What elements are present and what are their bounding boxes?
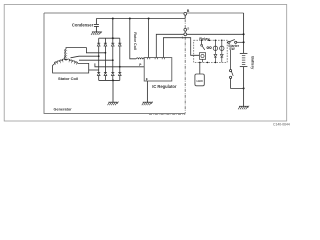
wire B top <box>44 12 244 14</box>
stator coil windings <box>54 49 77 65</box>
wire phase C <box>79 59 113 61</box>
wire reg terminal B riser <box>148 19 150 58</box>
wire reg terminal L to relay <box>163 38 199 58</box>
svg-text:Generator: Generator <box>54 107 73 111</box>
condenser C1 <box>94 19 99 32</box>
ground regulator <box>142 102 153 106</box>
node phase A <box>105 52 107 54</box>
wire phase A <box>66 48 105 53</box>
rectifier top bus <box>99 37 120 39</box>
diode D4 <box>118 43 121 46</box>
svg-text:Condenser: Condenser <box>72 22 94 27</box>
svg-text:S: S <box>187 26 189 30</box>
ground rectifier <box>108 102 119 106</box>
wire LED <box>199 62 201 74</box>
ground battery <box>238 106 249 110</box>
node bus-reg <box>148 18 150 20</box>
node S wire <box>243 33 245 35</box>
terminal staple L <box>162 58 164 60</box>
relay coil 1 <box>214 40 216 50</box>
terminal L <box>184 33 187 36</box>
wire resistor to bottom <box>202 59 204 62</box>
node diode top bus <box>112 37 114 39</box>
winding right <box>67 59 78 64</box>
IC regulator U1 box <box>144 58 172 81</box>
ground condenser <box>91 31 102 35</box>
wire column 3 <box>112 38 114 80</box>
stator centre node <box>65 59 67 61</box>
wire F to ground <box>146 81 148 102</box>
relay resistor box <box>199 53 205 60</box>
wire phase B <box>71 56 99 58</box>
relay diode 2 <box>220 51 223 63</box>
relay diode 1 <box>214 51 217 63</box>
diode D2 <box>104 43 107 46</box>
winding vertical <box>64 49 66 59</box>
wire column 1 <box>98 38 100 80</box>
diode D5 <box>97 73 100 76</box>
wire reg terminal S to battery <box>156 34 243 57</box>
ignition switch SW2 <box>230 50 232 70</box>
starter switch SW1 <box>226 41 229 43</box>
rotor coil winding <box>136 58 144 59</box>
svg-text:Rotor Coil: Rotor Coil <box>133 32 137 50</box>
winding left <box>54 59 65 64</box>
node bus-diode <box>112 18 114 20</box>
dash-dot bottom stub <box>149 114 185 116</box>
svg-text:Battery: Battery <box>251 56 255 70</box>
terminal S <box>184 28 187 31</box>
terminal B <box>184 12 187 15</box>
boundary dash-dot line <box>184 14 186 114</box>
rectifier bottom bus <box>99 79 120 81</box>
wire battery to ground <box>243 67 245 107</box>
relay terminal nodes top <box>201 40 203 42</box>
diode D1 <box>97 43 100 46</box>
node starter wire <box>243 41 245 43</box>
diode D6 <box>104 73 107 76</box>
generator box <box>44 13 185 113</box>
wire column 2 <box>104 38 106 80</box>
wire column 4 <box>119 38 121 80</box>
svg-text:Stator Coil: Stator Coil <box>58 76 78 81</box>
terminal staple B <box>147 58 149 60</box>
svg-text:C140-0644: C140-0644 <box>273 123 290 127</box>
wire riser bus to diode bus <box>112 19 114 39</box>
node switch-battery <box>243 87 245 89</box>
diode D7 <box>111 73 114 76</box>
svg-text:L: L <box>182 36 184 40</box>
wire main bus <box>96 15 185 18</box>
node phase C <box>112 59 114 61</box>
wire to ground 1 <box>112 80 114 102</box>
battery BT1 <box>240 53 248 66</box>
relay coil 2 <box>221 40 223 50</box>
wire switch to battery column <box>231 79 244 89</box>
svg-text:B: B <box>187 9 190 13</box>
node phase B <box>98 55 100 57</box>
wire neutral to regulator <box>95 63 144 66</box>
wire stator lower route <box>53 63 89 73</box>
relay contact 2 <box>207 47 209 49</box>
wire branch to diode <box>89 69 99 71</box>
wire battery column upper <box>243 13 245 53</box>
diode D3 <box>111 43 114 46</box>
node bus-rotor <box>129 18 131 20</box>
terminal staple S <box>155 58 157 60</box>
svg-text:SW: SW <box>229 47 235 51</box>
node bottom bus <box>112 79 114 81</box>
svg-text:LED: LED <box>197 79 204 83</box>
node neutral col4 <box>119 66 121 68</box>
diode D8 <box>118 73 121 76</box>
wire rotor column <box>130 19 136 59</box>
relay terminal nodes bottom <box>199 62 201 64</box>
LED lamp box <box>195 74 204 86</box>
relay box <box>194 40 228 62</box>
svg-text:F: F <box>146 77 148 81</box>
svg-text:IC Regulator: IC Regulator <box>152 84 177 89</box>
relay contact <box>202 40 205 50</box>
